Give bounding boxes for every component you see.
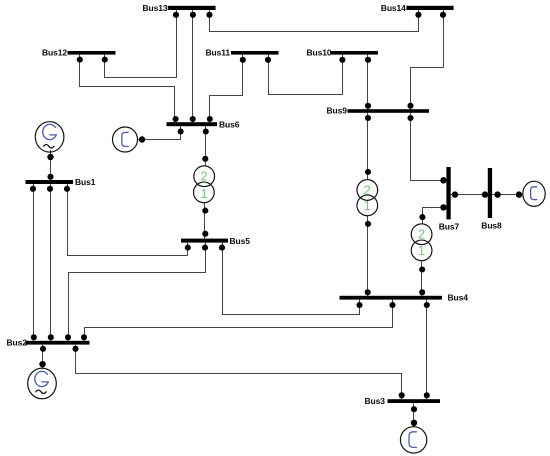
compensator C3 letter C [409, 432, 416, 448]
svg-text:Bus3: Bus3 [365, 396, 386, 406]
node dots Bus13 [173, 12, 179, 18]
svg-text:Bus6: Bus6 [219, 119, 240, 129]
transformer T2 winding 2 [357, 180, 378, 201]
busbar Bus13 [168, 6, 216, 10]
busbar Bus9 [348, 109, 430, 113]
compensator C2 letter C [531, 187, 537, 200]
wire line 6-11 [210, 55, 243, 123]
generator G1 circle [35, 122, 64, 152]
svg-text:2: 2 [201, 169, 208, 184]
node dots Bus8 [482, 191, 488, 197]
wire compensator C2 stub [492, 194, 523, 196]
svg-text:2: 2 [364, 183, 371, 198]
wire line 4-9 upper (Bus9 to transformer T2) [367, 113, 369, 180]
node dots transformer T1 terminals [202, 156, 208, 162]
node dot G2 terminal [39, 361, 45, 367]
wire line 5-6 lower (transformer T1 to Bus5) [204, 203, 206, 239]
node dots Bus5 [202, 231, 208, 237]
svg-text:Bus8: Bus8 [481, 221, 502, 231]
svg-text:Bus4: Bus4 [448, 293, 469, 303]
node dots Bus4 [365, 289, 371, 295]
busbar Bus2 [26, 341, 90, 345]
wire line 10-11 [269, 55, 343, 95]
busbar Bus5 [181, 239, 228, 243]
svg-text:2: 2 [418, 227, 425, 242]
svg-text:Bus9: Bus9 [327, 106, 348, 116]
svg-text:Bus2: Bus2 [7, 338, 28, 348]
transformer T1 winding 1 [194, 182, 215, 203]
wire line 4-5 [223, 243, 360, 315]
busbar Bus10 [331, 51, 378, 55]
node dots Bus2 [31, 334, 37, 340]
node dot C2 terminal [516, 191, 522, 197]
wire line 4-7 upper (Bus7 to transformer T3) [423, 208, 447, 224]
wire generator G1 stub [50, 150, 52, 180]
svg-text:1: 1 [201, 186, 208, 201]
wire line 4-9 lower (transformer T2 to Bus4) [367, 216, 369, 296]
node dots Bus14 [415, 12, 421, 18]
wire line 2-3 [76, 345, 402, 400]
node dots Bus1 [47, 174, 53, 180]
compensator C3 circle [400, 427, 426, 453]
wire line 13-14 [210, 10, 419, 32]
svg-text:Bus1: Bus1 [75, 177, 96, 187]
svg-text:1: 1 [364, 198, 371, 213]
wire compensator C1 stub [138, 126, 181, 139]
wire line 7-9 [411, 113, 447, 181]
node dots Bus3 [399, 392, 405, 398]
wire line 4-7 lower (transformer T3 to Bus4) [421, 261, 423, 296]
node dot C1 terminal [139, 136, 145, 142]
transformer T3 winding 1 [411, 240, 432, 261]
wire line 1-2 a [33, 184, 35, 341]
svg-text:1: 1 [418, 243, 425, 258]
svg-text:Bus11: Bus11 [206, 48, 231, 58]
busbar Bus8 [488, 168, 492, 218]
wire line 12-13 [105, 10, 177, 78]
node dots Bus9 [365, 103, 371, 109]
wire line 6-12 [80, 55, 175, 123]
node dots transformer T3 terminals [419, 214, 425, 220]
busbar Bus11 [231, 51, 279, 55]
svg-text:Bus7: Bus7 [439, 222, 460, 232]
transformer T1 winding 2 [194, 166, 215, 187]
generator G1 letter G [43, 124, 56, 139]
node dots Bus11 [240, 57, 246, 63]
transformer T3 winding 2 [411, 224, 432, 245]
generator G2 circle [28, 368, 57, 399]
wire line 2-4 [85, 299, 393, 340]
transformer T2 winding 1 [357, 195, 378, 216]
wire line 9-10 [367, 55, 369, 110]
node dots Bus12 [77, 57, 83, 63]
busbar Bus14 [406, 6, 453, 10]
busbar Bus4 [340, 296, 443, 300]
busbar Bus6 [167, 122, 218, 126]
wire line 1-5 [68, 184, 188, 256]
wire line 6-13 [192, 10, 194, 122]
compensator C1 letter C [122, 132, 128, 146]
wire line 3-4 [426, 299, 428, 399]
node dots Bus10 [339, 57, 345, 63]
busbar Bus3 [388, 399, 441, 403]
node dots Bus7 [440, 177, 446, 183]
node dots Bus6 [173, 116, 179, 122]
compensator C2 circle [523, 181, 545, 206]
node dot G1 terminal [47, 154, 53, 160]
wire line 1-2 b [50, 184, 52, 341]
generator G2 letter G [35, 371, 48, 386]
wire line 7-8 [451, 194, 488, 196]
wire line 5-6 upper (Bus6 to transformer T1) [205, 126, 207, 166]
svg-text:Bus5: Bus5 [230, 236, 251, 246]
wire generator G2 stub [42, 345, 44, 370]
busbar Bus1 [26, 180, 74, 184]
busbar Bus7 [446, 167, 450, 219]
generator G2 tilde [36, 390, 46, 393]
svg-text:Bus13: Bus13 [143, 3, 168, 13]
generator G1 tilde [44, 145, 54, 148]
node dot C3 terminal [411, 420, 417, 426]
wire line 2-5 [69, 243, 206, 341]
busbar Bus12 [68, 51, 116, 55]
wire line 9-14 [411, 10, 444, 110]
node dots transformer T2 terminals [365, 169, 371, 175]
svg-text:Bus14: Bus14 [381, 3, 406, 13]
compensator C1 circle [113, 127, 138, 152]
svg-text:Bus12: Bus12 [42, 48, 67, 58]
wire compensator C3 stub [413, 403, 415, 427]
svg-text:Bus10: Bus10 [307, 48, 332, 58]
